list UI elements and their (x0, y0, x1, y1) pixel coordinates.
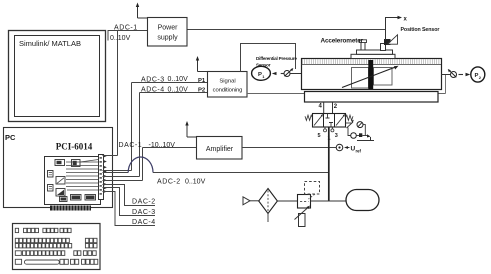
svg-text:PC: PC (5, 133, 16, 142)
svg-text:Position Sensor: Position Sensor (401, 27, 440, 33)
svg-text:-10..10V: -10..10V (149, 142, 176, 149)
svg-text:DAC-4: DAC-4 (132, 219, 156, 226)
svg-text:Signal: Signal (219, 79, 235, 85)
svg-text:DAC-3: DAC-3 (132, 209, 156, 216)
svg-text:ADC-3: ADC-3 (141, 76, 165, 83)
svg-text:ADC-2: ADC-2 (157, 178, 181, 185)
svg-text:3: 3 (335, 133, 338, 139)
svg-text:ADC-4: ADC-4 (141, 87, 165, 94)
svg-text:0..10V: 0..10V (168, 76, 189, 83)
svg-text:PCI-6014: PCI-6014 (56, 142, 93, 152)
svg-text:Power: Power (158, 25, 179, 32)
svg-text:supply: supply (157, 35, 178, 42)
svg-text:Amplifier: Amplifier (206, 146, 234, 153)
svg-text:0..10V: 0..10V (168, 86, 189, 93)
svg-text:5: 5 (318, 133, 321, 139)
svg-text:DAC-2: DAC-2 (132, 199, 156, 206)
svg-text:Differential Pressure: Differential Pressure (256, 56, 297, 61)
svg-text:Accelerometer: Accelerometer (321, 38, 364, 45)
svg-text:ADC-1: ADC-1 (114, 25, 138, 32)
svg-text:Simulink/ MATLAB: Simulink/ MATLAB (19, 39, 81, 48)
svg-text:DAC-1: DAC-1 (119, 142, 143, 149)
svg-text:ref: ref (356, 149, 362, 154)
svg-text:P1: P1 (198, 78, 206, 84)
svg-text:P2: P2 (198, 88, 206, 94)
svg-text:0..10V: 0..10V (185, 178, 206, 185)
svg-text:conditioning: conditioning (213, 88, 243, 94)
svg-text:0..10V: 0..10V (110, 35, 131, 42)
